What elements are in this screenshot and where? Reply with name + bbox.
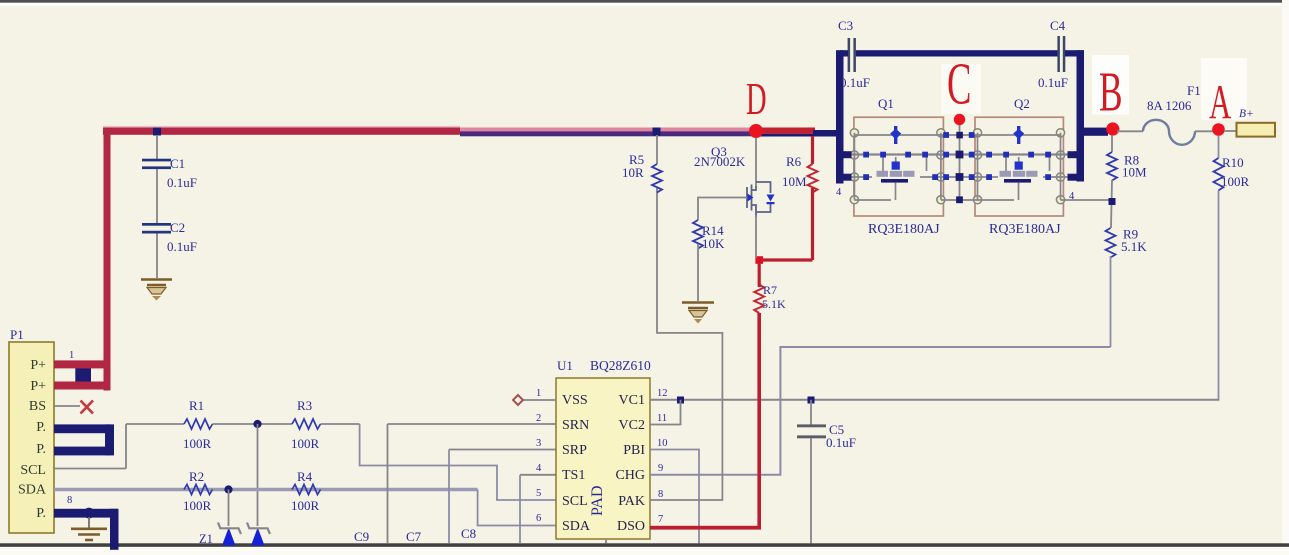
svg-text:R6: R6 [786, 154, 802, 169]
drain hook [752, 186, 757, 190]
svg-text:P1: P1 [10, 327, 24, 342]
Q1 row2 junction dots [863, 152, 938, 180]
resistor R14 [693, 220, 703, 249]
Q2 internal MOSFET [1000, 126, 1050, 200]
Q2 row2 junction dots [986, 152, 1051, 180]
capacitor C5 [797, 424, 826, 427]
svg-text:P.: P. [36, 442, 46, 457]
svg-text:C: C [947, 51, 971, 117]
wire: red V+ vertical down to P1 [104, 128, 111, 391]
svg-text:Q1: Q1 [878, 96, 894, 111]
svg-text:10M: 10M [782, 174, 807, 189]
svg-text:4: 4 [836, 187, 842, 198]
svg-text:VC1: VC1 [619, 393, 645, 408]
svg-text:4: 4 [536, 463, 542, 474]
svg-text:8: 8 [67, 495, 72, 506]
Q1 package outline [854, 117, 944, 216]
svg-text:C8: C8 [461, 526, 476, 541]
wire P+ pin1 stub (red) [54, 360, 111, 368]
svg-text:8: 8 [658, 489, 663, 500]
Q2 package pads [973, 129, 1064, 204]
svg-text:PAK: PAK [618, 494, 645, 509]
node C [941, 64, 981, 114]
wire SRP net to pin3 [449, 449, 556, 451]
svg-text:RQ3E180AJ: RQ3E180AJ [989, 222, 1061, 237]
svg-text:TS1: TS1 [562, 468, 585, 483]
node C column [959, 125, 961, 200]
resistor R10 [1218, 136, 1220, 158]
svg-text:8A 1206: 8A 1206 [1147, 98, 1192, 113]
wire SRN net to pin2 [388, 423, 557, 425]
wire: red over navy (node D to R6 tap) [756, 128, 815, 134]
Q2 pin columns [977, 133, 979, 200]
wire row2 (main through line) [843, 153, 1077, 155]
wire C5 top lead [810, 400, 812, 425]
wire Q3 drain [755, 136, 757, 186]
junction node (R1/R3) [253, 420, 261, 428]
capacitor C2 [142, 223, 171, 226]
node A [1201, 58, 1247, 120]
svg-text:3: 3 [536, 438, 541, 449]
wire R1 to junction to R3 [213, 423, 293, 425]
wire top navy bus C3-C4 [856, 50, 1058, 56]
svg-text:5.1K: 5.1K [762, 297, 786, 311]
wire row1 (diode row) [854, 134, 1060, 136]
junction node (Q2 pin4 tie) [1109, 198, 1116, 205]
svg-text:P.: P. [36, 506, 46, 521]
navy bar between P+ pins [75, 362, 91, 388]
gate bar [746, 187, 748, 208]
right navy bus bar [1077, 50, 1085, 181]
wire R3 to corner [321, 423, 360, 425]
wire C1 top lead [156, 135, 158, 159]
wire R8 to R9 [1111, 180, 1112, 228]
svg-text:6: 6 [536, 513, 541, 524]
resistor R7 (red) [754, 285, 764, 314]
junction node (red, Q3 source) [755, 256, 763, 264]
gate arrow [748, 194, 754, 202]
resistor R1 [184, 419, 213, 429]
svg-text:100R: 100R [291, 498, 320, 513]
wire SDA drop to pin6 [478, 490, 556, 526]
wire B to fuse [1117, 130, 1143, 132]
svg-text:B: B [1099, 61, 1123, 123]
svg-text:0.1uF: 0.1uF [1038, 75, 1068, 90]
svg-text:2N7002K: 2N7002K [694, 154, 746, 169]
svg-text:PBI: PBI [623, 443, 645, 458]
svg-text:R2: R2 [189, 469, 204, 484]
resistor R9 [1106, 228, 1116, 258]
resistor R2 [184, 485, 213, 495]
junction node (R2 row) [224, 485, 232, 493]
wire R9 down to CHG row [1110, 256, 1112, 347]
wire BS stub [54, 405, 80, 407]
middle connector dots [943, 132, 974, 180]
svg-text:C9: C9 [354, 529, 369, 544]
Q1 package pads [850, 129, 945, 204]
svg-text:Q2: Q2 [1014, 96, 1030, 111]
wire Q3 gate to R14 [698, 198, 747, 221]
svg-text:100R: 100R [183, 498, 212, 513]
svg-text:SCL: SCL [20, 463, 46, 478]
channel bar [751, 185, 753, 211]
wire R7 top to red junction [758, 260, 761, 287]
node junction at C1 tap [153, 128, 161, 136]
wire VSS pin1 stub [522, 399, 556, 401]
wire VC1 net (pin12) [650, 399, 1219, 401]
navy drop to bottom edge [110, 509, 119, 550]
wire SCL riser to R1 row [125, 424, 127, 469]
junction node VC2 tie [677, 397, 684, 404]
svg-text:C4: C4 [1050, 18, 1066, 33]
wire VC2 hook (pin11) [650, 400, 681, 425]
junction dot on pin8 stub [84, 508, 95, 519]
svg-text:F1: F1 [1187, 83, 1201, 98]
junction node R5 tap [653, 128, 661, 136]
wire P. pin8 stub (navy) [54, 509, 118, 518]
svg-text:PAD: PAD [589, 485, 606, 516]
svg-text:11: 11 [657, 413, 667, 424]
wire red link to R6 [758, 258, 813, 261]
svg-text:0.1uF: 0.1uF [840, 75, 870, 90]
wire P+ pin2 stub (red) [54, 382, 111, 390]
svg-text:R1: R1 [189, 398, 204, 413]
wire C2 to ground [156, 234, 158, 279]
ground (C2) [141, 280, 172, 286]
resistor R3 [292, 419, 321, 429]
resistor R4 [292, 485, 321, 495]
wire row4 segments [854, 199, 891, 201]
svg-text:0.1uF: 0.1uF [167, 239, 197, 254]
wire A to B+ terminal [1224, 130, 1237, 132]
svg-text:R10: R10 [1222, 155, 1244, 170]
ground (R14) [682, 303, 714, 309]
wire C5 bottom lead [810, 438, 812, 543]
wire U1 pad stub [605, 539, 607, 544]
wire CHG net (pin9) [650, 347, 1111, 475]
svg-text:10: 10 [657, 438, 668, 449]
svg-text:CHG: CHG [615, 468, 645, 483]
wire navy stubs bus bar to package pins [843, 151, 852, 158]
wire PBI net (pin10) [650, 450, 699, 544]
Q1 pin columns [853, 133, 855, 200]
wire SDA row (thick) [54, 488, 478, 491]
svg-text:SCL: SCL [562, 494, 588, 509]
svg-text:7: 7 [658, 514, 663, 525]
wire between C1 and C2 [156, 169, 158, 224]
svg-text:10K: 10K [702, 236, 725, 251]
svg-text:1: 1 [536, 388, 541, 399]
svg-text:100R: 100R [183, 436, 212, 451]
svg-text:DSO: DSO [617, 519, 645, 534]
no-connect diamond on pin1 [513, 395, 523, 405]
wire TS1 net to pin4 [520, 474, 556, 476]
left navy bus bar [836, 50, 844, 183]
ground (P1) [71, 529, 107, 540]
svg-text:A: A [1209, 75, 1232, 129]
svg-text:1: 1 [69, 350, 74, 361]
wire bus bar to node B (navy) [1084, 128, 1108, 136]
wire: navy into Q1 bus bar [813, 130, 837, 137]
svg-text:4: 4 [1069, 191, 1075, 202]
svg-text:BS: BS [29, 399, 46, 414]
svg-text:10R: 10R [622, 165, 644, 180]
no-connect X on BS [81, 401, 94, 414]
wire P. pin4 stub (navy) [54, 424, 111, 433]
wire: main V+ pink over purple (middle segment to node D) [460, 128, 756, 132]
wire P. pin5 stub (navy) [54, 447, 111, 456]
svg-text:12: 12 [657, 388, 668, 399]
svg-text:R4: R4 [297, 469, 313, 484]
wire R14 to ground [697, 244, 699, 301]
wire C3 left leg (navy) [840, 50, 848, 56]
Q2 package outline [975, 117, 1063, 216]
wire: main V+ red horizontal (left segment) [103, 126, 460, 128]
wire DSO net (pin7, red) [650, 526, 761, 530]
wire Q3 source down [755, 215, 757, 258]
navy bracket joining P. pins [105, 424, 114, 455]
svg-text:U1: U1 [557, 358, 573, 373]
resistor R5 [656, 135, 658, 164]
zener Z1b [251, 528, 265, 546]
svg-text:P.: P. [36, 420, 46, 435]
svg-text:C1: C1 [170, 156, 185, 171]
svg-text:VSS: VSS [562, 393, 588, 408]
svg-text:BQ28Z610: BQ28Z610 [590, 358, 651, 373]
svg-text:100R: 100R [1221, 174, 1250, 189]
svg-text:0.1uF: 0.1uF [167, 175, 197, 190]
source hook [752, 205, 757, 217]
svg-text:D: D [746, 74, 767, 124]
svg-text:SDA: SDA [18, 483, 47, 498]
resistor R8 [1111, 136, 1113, 152]
svg-text:10M: 10M [1122, 165, 1147, 180]
wire row3 segments [843, 176, 872, 178]
svg-text:SRN: SRN [562, 418, 589, 433]
svg-text:C2: C2 [170, 220, 185, 235]
svg-text:100R: 100R [291, 436, 320, 451]
svg-text:R7: R7 [763, 283, 777, 297]
wire SCL drop [360, 424, 556, 500]
svg-text:C3: C3 [838, 18, 853, 33]
resistor R6 (red) [811, 136, 814, 164]
node B [1092, 55, 1129, 115]
svg-text:B+: B+ [1239, 108, 1254, 120]
Q1 internal MOSFET [877, 126, 927, 200]
svg-text:SDA: SDA [562, 519, 591, 534]
wire C4 right leg (navy) [1065, 50, 1084, 56]
junction node C5 tap [808, 397, 815, 404]
svg-text:P+: P+ [30, 358, 46, 373]
wire R1 row [126, 423, 184, 425]
wire PAK net (pin8) to R5 [650, 188, 722, 500]
svg-text:VC2: VC2 [619, 418, 645, 433]
svg-text:C7: C7 [406, 529, 422, 544]
wire junction down to Z1 [228, 490, 230, 527]
svg-text:R3: R3 [297, 398, 312, 413]
svg-text:5.1K: 5.1K [1121, 239, 1147, 254]
svg-text:P+: P+ [30, 379, 46, 394]
wire dot to ground [88, 517, 90, 528]
svg-text:2: 2 [536, 413, 541, 424]
wire SCL stub [54, 468, 126, 470]
wire junction down to Z1 [257, 424, 259, 526]
svg-text:5: 5 [536, 488, 541, 499]
body diode arrow [767, 195, 775, 202]
body diode loop [756, 182, 771, 193]
svg-text:RQ3E180AJ: RQ3E180AJ [868, 222, 940, 237]
svg-text:Z1: Z1 [199, 532, 213, 546]
svg-text:SRP: SRP [562, 443, 587, 458]
svg-text:0.1uF: 0.1uF [826, 435, 856, 450]
wire R10 down to VC1 row [1218, 191, 1220, 399]
capacitor C1 [142, 159, 171, 162]
svg-text:9: 9 [658, 463, 663, 474]
